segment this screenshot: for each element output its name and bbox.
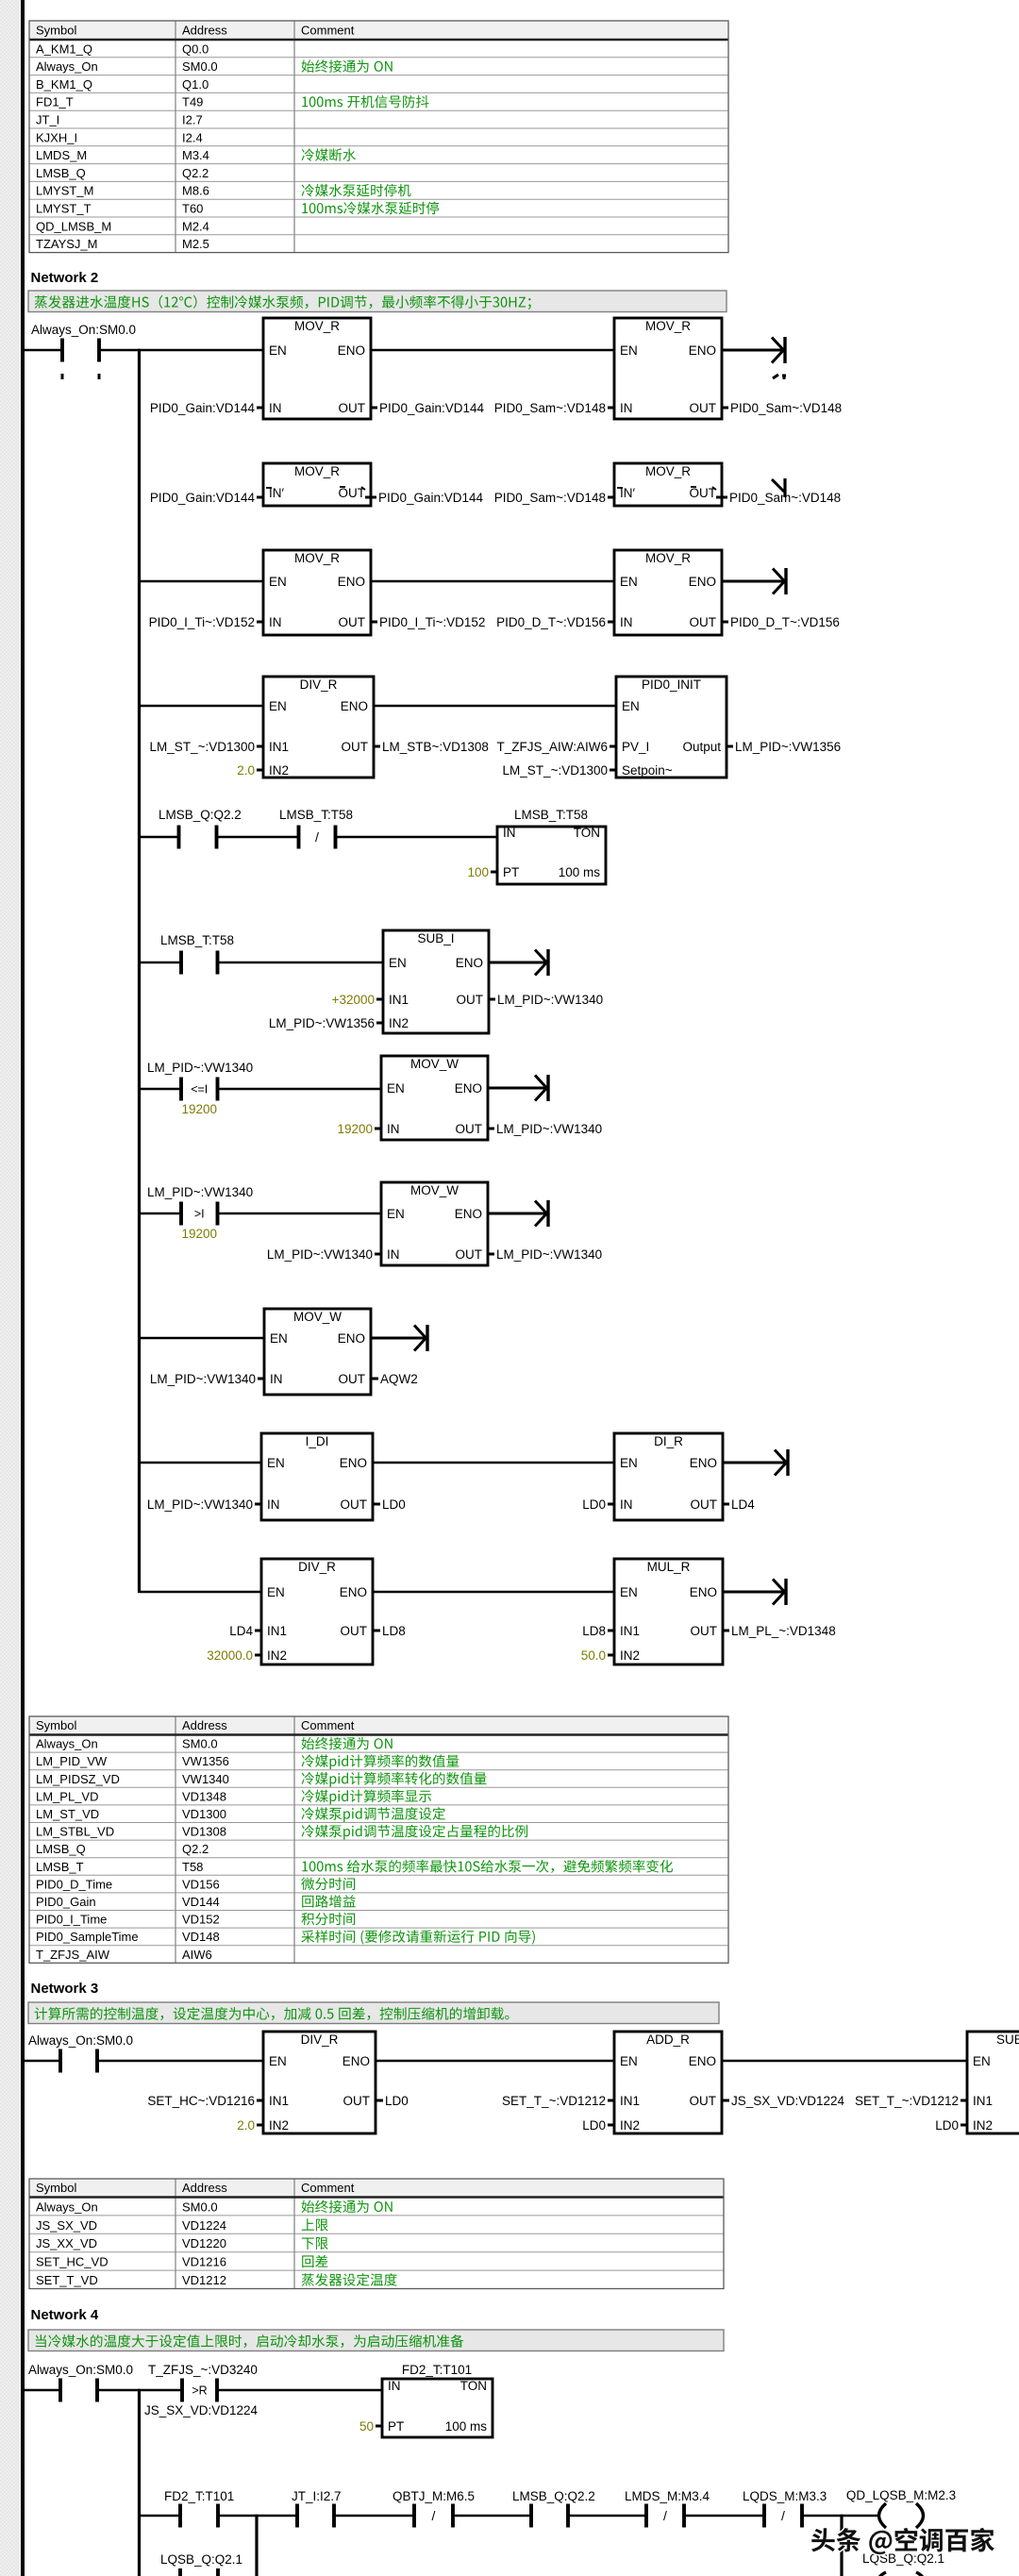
operand PID0_I_Ti~:VD152 in U3: [149, 615, 263, 629]
svg-text:LM_PIDSZ_VD: LM_PIDSZ_VD: [36, 1772, 120, 1786]
box MOV_R U4: [614, 550, 722, 635]
box MUL_R U14: [614, 1559, 723, 1664]
svg-text:EN: EN: [620, 1585, 638, 1599]
svg-text:MOV_R: MOV_R: [294, 464, 340, 478]
operand LD0 in U12: [582, 1497, 614, 1512]
constant 2.0 in U5: [237, 763, 263, 778]
svg-text:LD0: LD0: [382, 1497, 406, 1512]
svg-text:SUB_I: SUB_I: [417, 931, 454, 945]
svg-text:B_KM1_Q: B_KM1_Q: [36, 77, 92, 92]
svg-text:LM_PL_VD: LM_PL_VD: [36, 1789, 98, 1803]
svg-text:VD1224: VD1224: [182, 2218, 226, 2233]
wire branch to FD2 contact: [140, 2515, 181, 2517]
svg-text:19200: 19200: [181, 1227, 217, 1241]
svg-text:QD_LMSB_M: QD_LMSB_M: [36, 219, 111, 233]
svg-text:ENO: ENO: [690, 1585, 717, 1599]
svg-text:Comment: Comment: [301, 1718, 355, 1732]
svg-text:Symbol: Symbol: [36, 1718, 76, 1732]
svg-text:VD1348: VD1348: [182, 1789, 226, 1803]
svg-text:IN1: IN1: [269, 2094, 289, 2108]
svg-text:ENO: ENO: [455, 1081, 482, 1096]
constant 32000.0 in U13: [207, 1648, 261, 1663]
svg-text:ENO: ENO: [338, 1331, 365, 1346]
svg-text:EN: EN: [270, 1331, 288, 1346]
svg-text:2.0: 2.0: [237, 2118, 255, 2133]
svg-text:JS_SX_VD:VD1224: JS_SX_VD:VD1224: [731, 2094, 845, 2108]
operand PID0_I_Ti~:VD152 out U3: [371, 615, 485, 629]
svg-text:LMDS_M: LMDS_M: [36, 148, 87, 162]
constant +32000 in U7: [332, 993, 383, 1007]
svg-text:ENO: ENO: [690, 1456, 717, 1470]
operand LD0 out U15: [376, 2094, 409, 2108]
svg-text:IN2: IN2: [389, 1016, 409, 1030]
svg-text:EN: EN: [387, 1207, 405, 1221]
wire rail to contact net3: [25, 2060, 60, 2063]
operand LD0 in U17: [935, 2118, 967, 2133]
svg-text:VD1308: VD1308: [182, 1825, 226, 1839]
wire JT_I to QBTJ: [334, 2515, 414, 2517]
desktop margin strip: [0, 0, 21, 2576]
window left border / power rail: [21, 0, 25, 2576]
svg-text:ENO: ENO: [338, 575, 365, 589]
svg-text:PID0_Gain:VD144: PID0_Gain:VD144: [378, 491, 484, 505]
svg-text:<=I: <=I: [191, 1083, 208, 1096]
svg-text:Always_On:SM0.0: Always_On:SM0.0: [28, 2363, 133, 2377]
svg-text:OUT: OUT: [339, 401, 366, 415]
box I_DI U11: [261, 1433, 373, 1520]
svg-text:SM0.0: SM0.0: [182, 59, 218, 74]
svg-text:LMYST_M: LMYST_M: [36, 184, 93, 198]
toutiao watermark: [811, 2528, 994, 2554]
wire U16 to SUB box: [722, 2060, 967, 2063]
svg-text:PID0_I_Ti~:VD152: PID0_I_Ti~:VD152: [149, 615, 255, 629]
svg-text:PID0_D_T~:VD156: PID0_D_T~:VD156: [730, 615, 840, 629]
svg-text:IN1: IN1: [267, 1624, 287, 1638]
svg-text:IN2: IN2: [620, 2118, 640, 2133]
contact LMSB_Q:Q2.2: [159, 808, 242, 849]
svg-text:EN: EN: [267, 1585, 285, 1599]
svg-text:IN2: IN2: [269, 2118, 289, 2133]
svg-text:Always_On: Always_On: [36, 1737, 98, 1751]
svg-text:LQSB_Q:Q2.1: LQSB_Q:Q2.1: [160, 2552, 242, 2567]
wire branch to cmp row8: [140, 1213, 182, 1215]
box MOV_W U8: [381, 1056, 488, 1140]
svg-text:EN: EN: [620, 2054, 638, 2068]
operand LM_ST_~:VD1300 in U5: [150, 740, 263, 754]
open rung arrow row3: [722, 568, 786, 594]
svg-text:OUT: OUT: [339, 615, 366, 629]
open rung arrow row1: [722, 337, 785, 363]
svg-text:SET_HC_VD: SET_HC_VD: [36, 2255, 109, 2269]
contact LMDS_M:M3.4 NC: [625, 2489, 710, 2528]
svg-text:LD8: LD8: [382, 1624, 406, 1638]
wire branch to DIV_R U5: [140, 705, 266, 708]
svg-text:TON: TON: [574, 826, 600, 840]
wire LMSB_T contact to TON box: [336, 836, 498, 839]
contact Always_On:SM0.0 net3: [28, 2033, 133, 2073]
wire QBTJ to LMSB: [453, 2515, 531, 2517]
box TON T58: [497, 826, 606, 884]
wire branch to MOV_W row9: [140, 1337, 267, 1340]
svg-text:PID0_INIT: PID0_INIT: [642, 677, 701, 692]
wire U15 to ADD_R: [376, 2060, 614, 2063]
svg-text:LM_ST_VD: LM_ST_VD: [36, 1807, 99, 1821]
wire contact to cmp net4: [97, 2389, 182, 2392]
svg-text:LMSB_Q: LMSB_Q: [36, 1842, 86, 1856]
svg-text:Always_On: Always_On: [36, 2200, 98, 2214]
svg-text:ENO: ENO: [456, 956, 483, 970]
svg-text:I2.4: I2.4: [182, 130, 203, 144]
box DIV_R U15: [263, 2032, 376, 2133]
contact Always_On:SM0.0 net4: [28, 2363, 133, 2402]
wire U3 to U4: [371, 580, 614, 583]
contact QBTJ_M:M6.5 NC: [393, 2489, 475, 2528]
branch for parallel LQSB coil: [840, 2515, 843, 2576]
svg-text:LM_PID~:VW1356: LM_PID~:VW1356: [735, 740, 841, 754]
box MOV_W U10: [264, 1309, 371, 1395]
svg-text:LD0: LD0: [582, 1497, 606, 1512]
svg-text:JT_I: JT_I: [36, 113, 59, 127]
svg-text:MOV_W: MOV_W: [293, 1310, 342, 1324]
svg-text:SM0.0: SM0.0: [182, 1737, 218, 1751]
svg-text:PID0_Sam~:VD148: PID0_Sam~:VD148: [494, 491, 606, 505]
svg-text:DIV_R: DIV_R: [301, 2032, 339, 2047]
svg-text:LM_ST_~:VD1300: LM_ST_~:VD1300: [150, 740, 255, 754]
svg-text:TZAYSJ_M: TZAYSJ_M: [36, 237, 98, 251]
svg-text:ENO: ENO: [340, 1456, 367, 1470]
constant 50.0 in U14: [581, 1648, 614, 1663]
box ADD_R U16: [614, 2032, 722, 2133]
box MOV_R U1: [263, 318, 371, 419]
svg-text:>R: >R: [192, 2384, 207, 2398]
svg-text:M3.4: M3.4: [182, 148, 209, 162]
svg-text:LMSB_T:T58: LMSB_T:T58: [514, 808, 588, 822]
operand LM_STB~:VD1308 out U5: [374, 740, 489, 754]
svg-text:PID0_Sam~:VD148: PID0_Sam~:VD148: [730, 401, 842, 415]
operand LD0 out U11: [374, 1497, 406, 1512]
wire contact to MOV_R 1: [99, 349, 265, 352]
operand LM_PL_~:VD1348 out U14: [723, 1624, 836, 1638]
svg-text:Always_On:SM0.0: Always_On:SM0.0: [31, 323, 136, 337]
svg-text:QD_LQSB_M:M2.3: QD_LQSB_M:M2.3: [846, 2488, 956, 2502]
operand PID0_Sam~:VD148 out U2: [722, 401, 842, 415]
svg-text:IN: IN: [267, 1497, 280, 1512]
wire LMSB to LMDS: [568, 2515, 646, 2517]
svg-text:+32000: +32000: [332, 993, 375, 1007]
glitch dots under contact: [61, 374, 64, 379]
svg-text:VD1216: VD1216: [182, 2255, 226, 2269]
comparator contact >I LM_PID~:VW1340: [147, 1185, 253, 1241]
svg-text:/: /: [315, 829, 319, 845]
svg-text:IN: IN: [387, 1247, 400, 1262]
contact Always_On:SM0.0: [31, 323, 136, 362]
svg-text:OUT: OUT: [341, 1497, 368, 1512]
svg-text:MOV_W: MOV_W: [410, 1183, 459, 1197]
svg-text:50: 50: [359, 2419, 374, 2434]
box DI_R U12: [614, 1433, 723, 1520]
svg-text:OUT: OUT: [341, 1624, 368, 1638]
svg-text:ENO: ENO: [689, 2054, 716, 2068]
svg-text:LM_PL_~:VD1348: LM_PL_~:VD1348: [731, 1624, 836, 1638]
svg-text:TON: TON: [460, 2379, 487, 2393]
svg-text:MOV_R: MOV_R: [645, 319, 691, 333]
svg-text:/: /: [432, 2508, 436, 2523]
svg-text:ENO: ENO: [342, 2054, 370, 2068]
branch rail network2: [138, 349, 141, 1593]
wire rail to contact row1: [25, 349, 62, 352]
operand PID0_D_T~:VD156 in U4: [496, 615, 614, 629]
svg-text:LM_PID~:VW1340: LM_PID~:VW1340: [147, 1185, 253, 1199]
svg-text:LM_PID~:VW1340: LM_PID~:VW1340: [496, 1247, 602, 1262]
operand PID0_Sam~:VD148 glitch in: [494, 491, 614, 505]
svg-text:SUB: SUB: [996, 2032, 1019, 2047]
svg-text:VD144: VD144: [182, 1895, 220, 1909]
wire branch to cmp row7: [140, 1088, 182, 1091]
svg-text:FD2_T:T101: FD2_T:T101: [164, 2489, 234, 2503]
svg-text:AIW6: AIW6: [182, 1948, 212, 1962]
svg-text:ENO: ENO: [338, 343, 365, 358]
operand LM_PID~:VW1340 in U10: [150, 1372, 264, 1386]
svg-text:LQDS_M:M3.3: LQDS_M:M3.3: [743, 2489, 827, 2503]
svg-text:SET_T_VD: SET_T_VD: [36, 2273, 98, 2287]
svg-text:LM_PID~:VW1340: LM_PID~:VW1340: [497, 993, 603, 1007]
svg-text:I2.7: I2.7: [182, 113, 203, 127]
svg-text:LM_PID~:VW1356: LM_PID~:VW1356: [269, 1016, 375, 1030]
comparator contact >R T_ZFJS: [148, 2363, 258, 2402]
svg-text:LMSB_Q: LMSB_Q: [36, 166, 86, 180]
svg-text:Q0.0: Q0.0: [182, 42, 209, 56]
svg-text:SET_HC~:VD1216: SET_HC~:VD1216: [147, 2094, 255, 2108]
svg-text:I_DI: I_DI: [306, 1434, 329, 1448]
svg-text:ENO: ENO: [455, 1207, 482, 1221]
wire U13 to MUL_R: [373, 1591, 614, 1594]
svg-text:QBTJ_M:M6.5: QBTJ_M:M6.5: [393, 2489, 475, 2503]
svg-text:IN1: IN1: [269, 740, 289, 754]
svg-text:OUT: OUT: [690, 615, 717, 629]
svg-text:EN: EN: [620, 1456, 638, 1470]
network 3 comment box: [28, 2002, 719, 2024]
contact LMSB_Q:Q2.2 net4: [512, 2489, 595, 2528]
svg-text:IN2: IN2: [620, 1648, 640, 1663]
svg-text:IN2: IN2: [269, 763, 289, 778]
svg-text:VD148: VD148: [182, 1930, 220, 1944]
contact LQDS_M:M3.3 NC: [743, 2489, 827, 2528]
svg-text:Symbol: Symbol: [36, 24, 76, 38]
box PID0_INIT U6: [616, 677, 727, 778]
wire branch to LMSB_T contact row6: [140, 962, 182, 964]
svg-text:EN: EN: [620, 575, 638, 589]
operand SET_T_~:VD1212 in U17: [855, 2094, 967, 2108]
box MOV_R U2: [614, 318, 722, 419]
glitch overlay marks left box: [266, 487, 272, 489]
contact LMSB_T:T58 NC: [279, 808, 353, 849]
svg-text:VD1220: VD1220: [182, 2236, 226, 2250]
svg-text:LMSB_T:T58: LMSB_T:T58: [160, 933, 234, 947]
svg-text:JS_SX_VD: JS_SX_VD: [36, 2218, 97, 2233]
svg-text:IN1: IN1: [973, 2094, 993, 2108]
network 3 comment text: [35, 2007, 509, 2020]
svg-text:LM_PID~:VW1340: LM_PID~:VW1340: [147, 1061, 253, 1075]
svg-text:IN1: IN1: [389, 993, 409, 1007]
svg-text:LMSB_T: LMSB_T: [36, 1860, 84, 1874]
svg-text:LM_STBL_VD: LM_STBL_VD: [36, 1825, 114, 1839]
svg-text:EN: EN: [267, 1456, 285, 1470]
svg-text:IN2: IN2: [973, 2118, 993, 2133]
open rung arrow row8: [488, 1200, 548, 1227]
operand LD4 in U13: [229, 1624, 261, 1638]
svg-text:LMSB_Q:Q2.2: LMSB_Q:Q2.2: [159, 808, 242, 822]
operand AQW2 out U10: [372, 1372, 418, 1386]
svg-text:PV_I: PV_I: [622, 740, 649, 754]
coil QD_LQSB_M:M2.3: [846, 2488, 956, 2528]
svg-text:LM_PID~:VW1340: LM_PID~:VW1340: [496, 1122, 602, 1136]
svg-text:IN: IN: [269, 615, 282, 629]
box MOV_R glitch row2 right: [614, 463, 722, 506]
operand LM_PID~:VW1340 out U9: [488, 1247, 602, 1262]
wire U1 to U2: [371, 349, 614, 352]
svg-text:VW1340: VW1340: [182, 1772, 229, 1786]
svg-text:PID0_Sam~:VD148: PID0_Sam~:VD148: [494, 401, 606, 415]
svg-text:MOV_R: MOV_R: [294, 319, 340, 333]
svg-text:MOV_R: MOV_R: [645, 464, 691, 478]
svg-text:100: 100: [467, 865, 489, 879]
svg-text:DIV_R: DIV_R: [300, 677, 338, 692]
svg-text:Always_On:SM0.0: Always_On:SM0.0: [28, 2033, 133, 2048]
svg-text:MUL_R: MUL_R: [647, 1560, 691, 1574]
svg-text:OUT: OUT: [457, 993, 484, 1007]
svg-text:IN: IN: [269, 401, 282, 415]
svg-text:>I: >I: [194, 1208, 205, 1221]
svg-text:Comment: Comment: [301, 2181, 355, 2195]
svg-text:DI_R: DI_R: [654, 1434, 683, 1448]
operand PID0_Gain:VD144 out U1: [371, 401, 485, 415]
svg-text:Q2.2: Q2.2: [182, 1842, 209, 1856]
operand LD4 out U12: [723, 1497, 755, 1512]
svg-text:AQW2: AQW2: [380, 1372, 418, 1386]
svg-text:IN1: IN1: [620, 2094, 640, 2108]
svg-text:KJXH_I: KJXH_I: [36, 130, 77, 144]
network 4 comment box: [28, 2330, 724, 2351]
box DIV_R U5: [263, 677, 374, 778]
svg-text:/: /: [663, 2508, 667, 2523]
box SUB_R U17 clipped at edge: [967, 2032, 1019, 2133]
svg-text:Always_On: Always_On: [36, 59, 98, 74]
wire LQDS to coil: [802, 2515, 878, 2517]
svg-text:Symbol: Symbol: [36, 2181, 76, 2195]
symbol table 2: [29, 1716, 728, 1963]
svg-text:VW1356: VW1356: [182, 1754, 229, 1768]
svg-text:ENO: ENO: [340, 1585, 367, 1599]
svg-text:JS_XX_VD: JS_XX_VD: [36, 2236, 97, 2250]
svg-text:M8.6: M8.6: [182, 184, 209, 198]
svg-text:MOV_R: MOV_R: [294, 551, 340, 565]
svg-text:PID0_D_T~:VD156: PID0_D_T~:VD156: [496, 615, 606, 629]
svg-text:JS_SX_VD:VD1224: JS_SX_VD:VD1224: [144, 2403, 259, 2417]
operand LM_PID~:VW1356 in U7: [269, 1016, 383, 1030]
svg-text:Address: Address: [182, 24, 227, 38]
network 4 comment text: [36, 2334, 464, 2348]
svg-text:IN: IN: [620, 615, 633, 629]
operand LM_PID~:VW1340 out U8: [488, 1122, 602, 1136]
svg-text:T58: T58: [182, 1860, 203, 1874]
svg-text:VD152: VD152: [182, 1913, 220, 1927]
svg-text:Address: Address: [182, 1718, 227, 1732]
contact LMSB_T:T58 row6: [160, 933, 234, 975]
wire branch to DIV_R row11: [140, 1591, 264, 1594]
svg-text:PID0_SampleTime: PID0_SampleTime: [36, 1930, 139, 1944]
svg-text:EN: EN: [269, 343, 287, 358]
svg-text:JT_I:I2.7: JT_I:I2.7: [292, 2489, 342, 2503]
svg-text:EN: EN: [387, 1081, 405, 1096]
wire U11 to DI_R: [373, 1462, 614, 1464]
svg-text:/: /: [781, 2508, 785, 2523]
operand SET_T_~:VD1212 in U16: [502, 2094, 614, 2108]
svg-text:LD0: LD0: [582, 2118, 606, 2133]
svg-text:T_ZFJS_AIW: T_ZFJS_AIW: [36, 1948, 110, 1962]
svg-text:IN: IN: [503, 826, 516, 840]
svg-text:SET_T_~:VD1212: SET_T_~:VD1212: [855, 2094, 959, 2108]
svg-text:DIV_R: DIV_R: [298, 1560, 336, 1574]
glitch arrow fragment row2: [772, 479, 784, 492]
svg-text:EN: EN: [389, 956, 407, 970]
svg-text:OUT: OUT: [342, 740, 369, 754]
svg-text:IN: IN: [620, 401, 633, 415]
operand PID0_Gain:VD144 glitch left: [150, 491, 263, 505]
wire rail to contact net4: [25, 2389, 60, 2392]
open rung arrow row7: [488, 1075, 548, 1101]
box MOV_R glitch row2 left: [263, 463, 371, 506]
svg-text:LM_PID~:VW1340: LM_PID~:VW1340: [150, 1372, 256, 1386]
svg-text:LM_PID_VW: LM_PID_VW: [36, 1754, 108, 1768]
svg-text:EN: EN: [973, 2054, 991, 2068]
box MOV_R U3: [263, 550, 371, 635]
symbol table 1: [29, 21, 728, 253]
operand LM_PID~:VW1340 in U11: [147, 1497, 261, 1512]
svg-text:Address: Address: [182, 2181, 227, 2195]
svg-text:LM_STB~:VD1308: LM_STB~:VD1308: [382, 740, 489, 754]
svg-text:PT: PT: [388, 2419, 404, 2434]
svg-text:50.0: 50.0: [581, 1648, 606, 1663]
wire LMDS to LQDS: [684, 2515, 764, 2517]
svg-text:EN: EN: [269, 575, 287, 589]
symbol table 3: [29, 2179, 724, 2289]
svg-text:MOV_W: MOV_W: [410, 1057, 459, 1071]
glitch operand PID0_Sam~:VD148 right label: [716, 496, 727, 499]
svg-text:LMSB_T:T58: LMSB_T:T58: [279, 808, 353, 822]
svg-text:Setpoin~: Setpoin~: [622, 763, 673, 778]
svg-text:IN: IN: [620, 1497, 633, 1512]
svg-text:PID0_Gain:VD144: PID0_Gain:VD144: [150, 491, 256, 505]
operand PID0_Sam~:VD148 in U2: [494, 401, 614, 415]
svg-text:PID0_D_Time: PID0_D_Time: [36, 1877, 112, 1891]
svg-text:T_ZFJS_~:VD3240: T_ZFJS_~:VD3240: [148, 2363, 258, 2377]
glitch operand PID0_Gain:VD144 right of row2 left box: [365, 496, 376, 499]
svg-text:Q2.2: Q2.2: [182, 166, 209, 180]
svg-text:OUT: OUT: [690, 401, 717, 415]
svg-text:VD1300: VD1300: [182, 1807, 226, 1821]
svg-text:PID0_I_Ti~:VD152: PID0_I_Ti~:VD152: [379, 615, 485, 629]
wire contact to DIV_R net3: [97, 2060, 265, 2063]
svg-text:Network 2: Network 2: [31, 270, 99, 286]
svg-text:OUT: OUT: [339, 486, 366, 500]
operand LD8 out U13: [374, 1624, 406, 1638]
svg-text:Network 4: Network 4: [31, 2307, 99, 2323]
contact FD2_T:T101: [164, 2489, 234, 2528]
glitch overlay marks right box: [617, 487, 623, 489]
svg-text:M2.5: M2.5: [182, 237, 209, 251]
svg-text:FD2_T:T101: FD2_T:T101: [402, 2363, 472, 2377]
operand PID0_D_T~:VD156 out U4: [722, 615, 840, 629]
